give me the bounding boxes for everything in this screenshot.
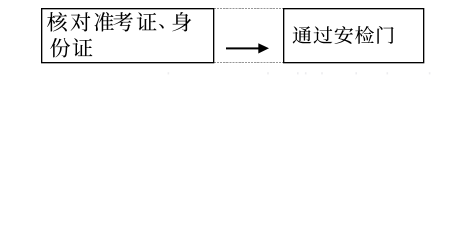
faint remnants: tops of cropped text row below	[168, 72, 431, 74]
process box: 核对准考证、身份证	[42, 9, 214, 63]
process box: 通过安检门	[284, 9, 424, 63]
text right box: 通过安检门	[293, 26, 394, 44]
text line 1 left box: 核对准考证、身	[47, 12, 191, 32]
flow arrow between boxes	[226, 43, 269, 53]
dashed gray connector line (bottom, between boxes)	[214, 62, 284, 64]
dashed gray connector line (top, between boxes)	[214, 8, 284, 10]
text line 2 left box: 份证	[50, 38, 92, 57]
